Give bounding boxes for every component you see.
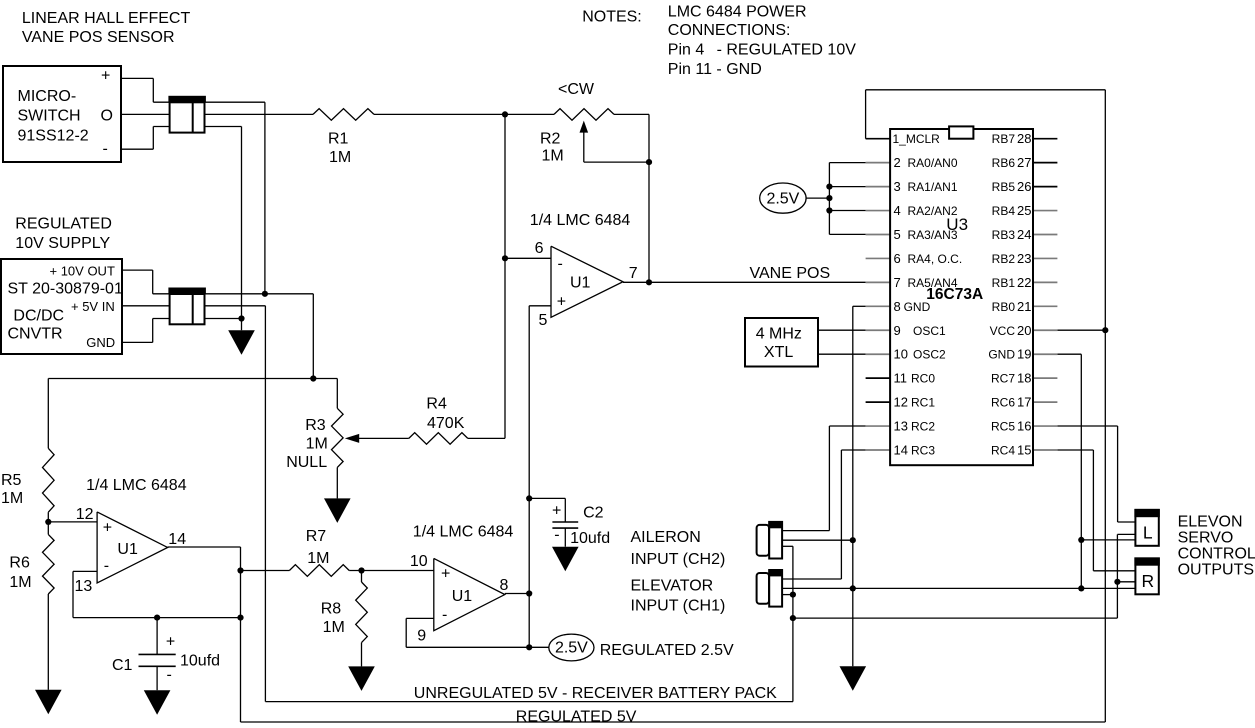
svg-text:-: -: [167, 667, 172, 684]
svg-text:RA1/AN1: RA1/AN1: [908, 180, 958, 194]
svg-text:-: -: [103, 141, 108, 158]
svg-text:R3: R3: [305, 417, 326, 434]
svg-text:470K: 470K: [427, 415, 465, 432]
svg-text:VANE POS SENSOR: VANE POS SENSOR: [22, 29, 175, 46]
svg-text:+: +: [101, 68, 110, 85]
svg-text:CONNECTIONS:: CONNECTIONS:: [668, 22, 791, 39]
svg-text:RC7: RC7: [991, 372, 1015, 386]
svg-text:U1: U1: [570, 275, 591, 292]
svg-text:RA2/AN2: RA2/AN2: [908, 204, 958, 218]
svg-text:R4: R4: [426, 396, 447, 413]
svg-text:6: 6: [894, 251, 901, 266]
svg-text:U1: U1: [452, 588, 473, 605]
svg-text:3: 3: [894, 179, 901, 194]
svg-text:DC/DC: DC/DC: [13, 308, 64, 325]
svg-text:91SS12-2: 91SS12-2: [18, 128, 89, 145]
svg-text:20: 20: [1017, 323, 1031, 338]
svg-text:INPUT (CH2): INPUT (CH2): [631, 551, 726, 568]
svg-text:14: 14: [894, 442, 908, 457]
svg-text:RC2: RC2: [911, 420, 935, 434]
svg-text:10ufd: 10ufd: [180, 653, 220, 670]
svg-text:RA0/AN0: RA0/AN0: [908, 156, 958, 170]
svg-text:UNREGULATED 5V - RECEIVER BATT: UNREGULATED 5V - RECEIVER BATTERY PACK: [414, 685, 777, 702]
svg-text:+: +: [166, 634, 175, 651]
svg-text:1M: 1M: [329, 149, 351, 166]
svg-text:8: 8: [500, 577, 509, 594]
svg-text:16: 16: [1017, 419, 1031, 434]
svg-text:10: 10: [410, 553, 428, 570]
svg-text:RB2: RB2: [992, 252, 1016, 266]
svg-text:+ 5V IN: + 5V IN: [71, 299, 115, 314]
svg-text:17: 17: [1017, 395, 1031, 410]
svg-text:XTL: XTL: [764, 344, 793, 361]
svg-text:24: 24: [1017, 227, 1031, 242]
svg-text:R: R: [1141, 571, 1154, 591]
svg-text:9: 9: [894, 323, 901, 338]
svg-text:4: 4: [894, 203, 901, 218]
svg-text:11: 11: [894, 371, 908, 386]
svg-text:2.5V: 2.5V: [766, 190, 799, 207]
svg-text:RC4: RC4: [991, 443, 1015, 457]
svg-text:REGULATED 5V: REGULATED 5V: [516, 708, 637, 725]
svg-text:1M: 1M: [542, 148, 564, 165]
svg-text:13: 13: [75, 578, 93, 595]
svg-text:- REGULATED 10V: - REGULATED 10V: [717, 42, 857, 59]
svg-text:Pin 11 - GND: Pin 11 - GND: [668, 61, 762, 78]
svg-text:22: 22: [1017, 275, 1031, 290]
svg-text:1M: 1M: [323, 619, 345, 636]
svg-text:R1: R1: [328, 131, 349, 148]
svg-text:19: 19: [1017, 347, 1031, 362]
svg-text:6: 6: [535, 240, 544, 257]
svg-text:18: 18: [1017, 371, 1031, 386]
svg-text:7: 7: [894, 275, 901, 290]
svg-text:-: -: [442, 607, 447, 624]
svg-text:RC5: RC5: [991, 420, 1015, 434]
svg-text:13: 13: [894, 419, 908, 434]
svg-text:RC1: RC1: [911, 396, 935, 410]
svg-text:2.5V: 2.5V: [555, 640, 588, 657]
svg-text:LMC 6484 POWER: LMC 6484 POWER: [668, 4, 807, 21]
svg-text:2: 2: [894, 155, 901, 170]
svg-text:CNVTR: CNVTR: [8, 326, 63, 343]
svg-text:OSC1: OSC1: [913, 324, 946, 338]
svg-text:CONTROL: CONTROL: [1178, 546, 1255, 563]
svg-text:C2: C2: [583, 504, 604, 521]
svg-text:8: 8: [894, 299, 901, 314]
svg-text:RC3: RC3: [911, 443, 935, 457]
svg-text:VANE POS: VANE POS: [750, 265, 831, 282]
svg-text:12: 12: [894, 395, 908, 410]
svg-text:7: 7: [629, 265, 638, 282]
svg-text:+: +: [441, 566, 450, 583]
svg-text:RA3/AN3: RA3/AN3: [908, 228, 958, 242]
svg-text:14: 14: [168, 531, 186, 548]
svg-text:R2: R2: [540, 131, 561, 148]
svg-text:R5: R5: [1, 472, 22, 489]
svg-text:26: 26: [1017, 179, 1031, 194]
svg-text:9: 9: [417, 627, 426, 644]
svg-text:4 MHz: 4 MHz: [756, 326, 802, 343]
svg-text:1M: 1M: [9, 574, 31, 591]
svg-text:1/4 LMC 6484: 1/4 LMC 6484: [413, 523, 514, 540]
svg-text:5: 5: [894, 227, 901, 242]
svg-text:OUTPUTS: OUTPUTS: [1178, 562, 1254, 579]
svg-text:ST 20-30879-01: ST 20-30879-01: [8, 281, 123, 298]
svg-text:+: +: [103, 520, 112, 537]
svg-text:GND: GND: [86, 335, 115, 350]
svg-text:RA4, O.C.: RA4, O.C.: [908, 252, 963, 266]
svg-text:AILERON: AILERON: [631, 529, 701, 546]
svg-text:GND: GND: [988, 348, 1015, 362]
svg-text:1_MCLR: 1_MCLR: [893, 132, 941, 146]
svg-text:1/4 LMC 6484: 1/4 LMC 6484: [86, 477, 187, 494]
svg-text:15: 15: [1017, 442, 1031, 457]
svg-text:RA5/AN4: RA5/AN4: [908, 276, 958, 290]
svg-text:R7: R7: [306, 528, 327, 545]
svg-text:U1: U1: [117, 541, 138, 558]
svg-text:RB0: RB0: [992, 300, 1016, 314]
svg-text:<CW: <CW: [558, 81, 595, 98]
svg-text:NULL: NULL: [286, 454, 327, 471]
svg-text:RB7: RB7: [992, 132, 1016, 146]
svg-text:O: O: [101, 108, 113, 125]
svg-text:1M: 1M: [1, 490, 23, 507]
svg-text:C1: C1: [112, 657, 133, 674]
svg-text:VCC: VCC: [990, 324, 1016, 338]
svg-text:ELEVON: ELEVON: [1178, 514, 1243, 531]
svg-text:27: 27: [1017, 155, 1031, 170]
svg-text:+ 10V OUT: + 10V OUT: [50, 264, 115, 279]
svg-text:LINEAR HALL EFFECT: LINEAR HALL EFFECT: [22, 10, 191, 27]
svg-text:28: 28: [1017, 131, 1031, 146]
svg-text:25: 25: [1017, 203, 1031, 218]
svg-text:RB6: RB6: [992, 156, 1016, 170]
svg-text:RC0: RC0: [911, 372, 935, 386]
svg-text:5: 5: [539, 312, 548, 329]
svg-text:R8: R8: [321, 601, 342, 618]
svg-text:1/4 LMC 6484: 1/4 LMC 6484: [530, 212, 631, 229]
svg-text:GND: GND: [904, 300, 931, 314]
svg-text:Pin 4: Pin 4: [668, 42, 705, 59]
svg-text:INPUT (CH1): INPUT (CH1): [631, 597, 726, 614]
svg-text:-: -: [558, 256, 563, 273]
svg-text:NOTES:: NOTES:: [582, 9, 642, 26]
svg-text:RB5: RB5: [992, 180, 1016, 194]
svg-text:MICRO-: MICRO-: [18, 88, 77, 105]
svg-text:23: 23: [1017, 251, 1031, 266]
svg-text:1M: 1M: [307, 550, 329, 567]
svg-text:RB3: RB3: [992, 228, 1016, 242]
svg-text:SWITCH: SWITCH: [18, 108, 81, 125]
svg-text:-: -: [554, 527, 559, 544]
svg-text:R6: R6: [9, 554, 30, 571]
svg-text:-: -: [104, 558, 109, 575]
svg-text:12: 12: [76, 506, 94, 523]
svg-text:1M: 1M: [306, 436, 328, 453]
svg-text:21: 21: [1017, 299, 1031, 314]
svg-text:L: L: [1143, 523, 1153, 543]
svg-text:REGULATED: REGULATED: [15, 216, 112, 233]
svg-text:RB4: RB4: [992, 204, 1016, 218]
svg-text:RB1: RB1: [992, 276, 1016, 290]
svg-text:+: +: [552, 503, 561, 520]
svg-text:RC6: RC6: [991, 396, 1015, 410]
svg-text:+: +: [557, 294, 566, 311]
svg-text:REGULATED 2.5V: REGULATED 2.5V: [600, 642, 734, 659]
svg-text:OSC2: OSC2: [913, 348, 946, 362]
svg-text:10V SUPPLY: 10V SUPPLY: [15, 235, 110, 252]
svg-text:10ufd: 10ufd: [570, 530, 610, 547]
svg-text:10: 10: [894, 347, 908, 362]
svg-text:ELEVATOR: ELEVATOR: [631, 578, 714, 595]
svg-text:SERVO: SERVO: [1178, 530, 1234, 547]
